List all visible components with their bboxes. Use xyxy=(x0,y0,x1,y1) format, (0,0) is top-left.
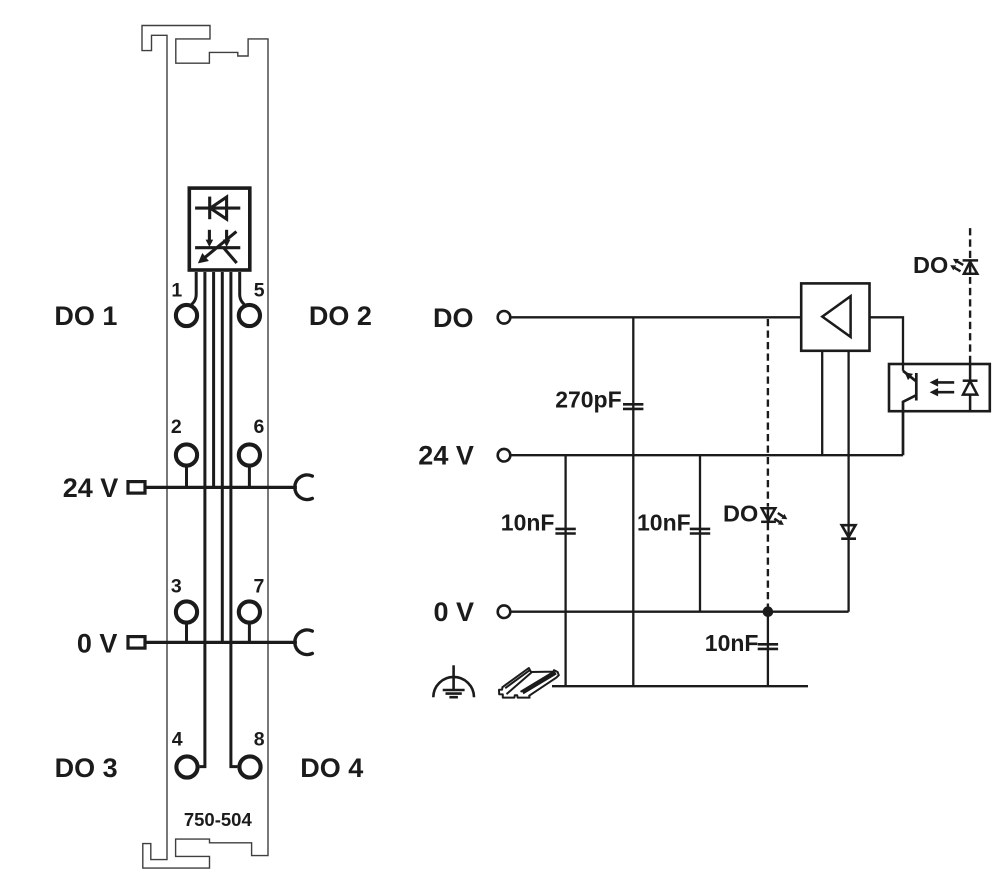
optocoupler box xyxy=(889,364,990,411)
svg-text:DO: DO xyxy=(433,303,474,333)
stub terminal 2 to 24V xyxy=(185,466,188,486)
suppressor / LED symbol inside box xyxy=(195,230,240,263)
phototransistor xyxy=(903,371,916,455)
terminal 6 xyxy=(239,444,260,465)
svg-text:DO: DO xyxy=(913,252,948,278)
svg-text:7: 7 xyxy=(253,576,264,598)
svg-text:10nF: 10nF xyxy=(637,510,691,536)
svg-text:4: 4 xyxy=(172,729,183,751)
stub terminal 6 to 24V xyxy=(248,466,251,486)
svg-text:0 V: 0 V xyxy=(77,628,118,658)
terminal 8 xyxy=(239,756,260,777)
node 0V line xyxy=(510,611,848,613)
dashed line optocoupler to indicator LED xyxy=(969,277,971,363)
svg-text:0 V: 0 V xyxy=(434,597,475,627)
buffer triangle xyxy=(822,296,850,337)
node DO line xyxy=(510,316,801,318)
status LED DO xyxy=(761,508,783,522)
wire 24V to earth xyxy=(564,455,566,686)
wire to 0V rail xyxy=(221,272,224,642)
0V rail line xyxy=(147,641,297,644)
buffer U1 box xyxy=(801,283,869,350)
buffer leg left xyxy=(821,351,823,455)
stub terminal 3 to 0V xyxy=(185,623,188,642)
indicator LED DO xyxy=(954,260,978,273)
svg-text:6: 6 xyxy=(253,416,264,438)
wire 0V to earth xyxy=(767,612,769,687)
svg-text:750-504: 750-504 xyxy=(184,809,253,830)
terminal 5 xyxy=(239,305,260,326)
diode symbol xyxy=(841,525,856,539)
terminal 4 xyxy=(176,756,197,777)
svg-text:270pF: 270pF xyxy=(555,387,621,413)
light arrows in optocoupler xyxy=(936,382,954,392)
optocoupler LED xyxy=(963,364,978,411)
24V male connector xyxy=(128,482,145,494)
svg-text:3: 3 xyxy=(171,576,182,598)
24V terminal xyxy=(498,449,511,462)
svg-text:DO 1: DO 1 xyxy=(54,301,117,331)
wire DO to earth xyxy=(632,317,634,686)
wire to terminal 4 xyxy=(200,272,205,767)
diode D1 inside box xyxy=(195,197,240,220)
pin number labels xyxy=(171,280,265,751)
24V rail line xyxy=(147,486,297,489)
wire buffer out to optocoupler xyxy=(870,317,904,371)
0V male connector xyxy=(128,637,145,649)
capacitor 10nF (24V-0V) xyxy=(690,529,710,534)
0V terminal xyxy=(498,605,511,618)
LED indicator box xyxy=(189,188,250,270)
diode branch 24V-0V xyxy=(847,455,849,612)
svg-text:1: 1 xyxy=(171,280,182,302)
dashed LED sense line (upper) xyxy=(767,319,769,507)
earth ground symbol xyxy=(433,665,474,697)
buffer leg right / diode branch xyxy=(847,351,849,455)
earth bus line xyxy=(552,685,808,687)
svg-text:DO: DO xyxy=(723,500,758,526)
terminal 2 xyxy=(176,444,197,465)
svg-text:10nF: 10nF xyxy=(501,510,555,536)
stub terminal 7 to 0V xyxy=(248,623,251,642)
DO terminal xyxy=(498,311,511,324)
svg-text:8: 8 xyxy=(254,729,265,751)
svg-text:5: 5 xyxy=(254,280,265,302)
left module labels xyxy=(54,301,372,783)
svg-text:DO 3: DO 3 xyxy=(55,753,118,783)
capacitor 10nF (24V-earth) xyxy=(555,529,575,534)
wire to terminal 5 xyxy=(240,272,245,305)
capacitor 270pF xyxy=(623,404,643,409)
0V female connector arc xyxy=(295,630,312,655)
wire to terminal 8 xyxy=(231,272,238,767)
svg-text:2: 2 xyxy=(171,416,182,438)
terminal 1 xyxy=(176,305,197,326)
junction dot on 0V xyxy=(763,606,774,617)
svg-text:24 V: 24 V xyxy=(418,441,474,471)
wire to terminal 1 xyxy=(192,272,197,305)
module 750-504 outline xyxy=(142,26,268,869)
wire 24V to 0V xyxy=(699,455,701,612)
svg-text:DO 2: DO 2 xyxy=(309,301,372,331)
node 24V line xyxy=(510,454,903,456)
terminal 3 xyxy=(176,601,197,622)
schematic port labels xyxy=(418,303,474,627)
svg-text:DO 4: DO 4 xyxy=(300,753,363,783)
svg-text:24 V: 24 V xyxy=(63,473,119,503)
wire to 24V rail xyxy=(212,272,215,486)
svg-text:10nF: 10nF xyxy=(705,630,759,656)
24V female connector arc xyxy=(295,475,312,500)
terminal 7 xyxy=(239,601,260,622)
dashed LED sense line (lower) xyxy=(767,523,769,607)
capacitor 10nF (0V-earth) xyxy=(758,644,778,649)
DIN rail symbol xyxy=(499,668,559,698)
